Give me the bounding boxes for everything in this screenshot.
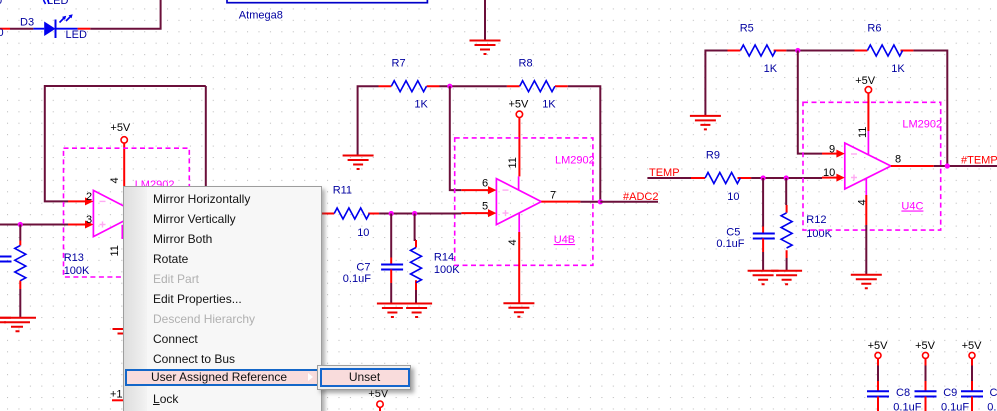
net label #ADC2 xyxy=(600,191,658,203)
wire xyxy=(971,366,973,382)
op-amp U4B xyxy=(496,155,594,247)
wire xyxy=(19,289,21,318)
wire xyxy=(913,51,947,167)
wire xyxy=(580,201,600,203)
capacitor C10 partial xyxy=(961,381,997,411)
svg-text:C5: C5 xyxy=(726,227,740,239)
wire xyxy=(10,28,33,30)
ground xyxy=(771,271,802,285)
svg-text:R7: R7 xyxy=(392,58,406,70)
svg-text:0.1uF: 0.1uF xyxy=(893,402,921,411)
svg-text:1K: 1K xyxy=(414,99,428,111)
pin 3 xyxy=(68,214,93,229)
svg-text:3: 3 xyxy=(86,214,92,226)
ground xyxy=(0,318,36,332)
wire xyxy=(358,86,379,155)
svg-text:U4B: U4B xyxy=(554,234,575,246)
power +5V U4B xyxy=(509,99,530,177)
svg-text:0.1uF: 0.1uF xyxy=(716,238,744,250)
wire xyxy=(379,213,461,215)
svg-text:5: 5 xyxy=(482,201,488,213)
svg-text:11: 11 xyxy=(507,157,519,168)
LED D3 xyxy=(20,14,90,41)
wire to pin 6 xyxy=(450,86,462,190)
svg-text:R9: R9 xyxy=(706,150,720,162)
ground xyxy=(401,304,432,318)
svg-text:0.1uF: 0.1uF xyxy=(343,273,371,285)
node junction xyxy=(945,163,950,168)
svg-text:1K: 1K xyxy=(764,63,778,75)
ground xyxy=(690,116,721,129)
svg-text:0.1uF: 0.1uF xyxy=(941,402,969,411)
svg-text:10: 10 xyxy=(357,227,369,239)
svg-text:4: 4 xyxy=(507,239,519,245)
node junction xyxy=(795,48,800,53)
wire feedback loop U4A xyxy=(45,86,206,214)
power +5V C10 xyxy=(962,340,983,366)
ground xyxy=(503,303,534,317)
power +12V partial xyxy=(110,389,137,401)
svg-text:TEMP: TEMP xyxy=(649,167,680,179)
node junction xyxy=(761,175,766,180)
svg-text:#TEMP: #TEMP xyxy=(961,155,997,167)
svg-text:U4C: U4C xyxy=(901,201,923,213)
svg-text:R8: R8 xyxy=(519,58,533,70)
ground xyxy=(470,41,501,55)
capacitor C8 xyxy=(867,381,922,411)
svg-text:LED: LED xyxy=(47,0,68,7)
svg-text:100K: 100K xyxy=(64,265,90,277)
svg-text:+5V: +5V xyxy=(962,340,983,352)
pin 10 xyxy=(822,167,845,182)
wire xyxy=(440,85,507,87)
svg-text:9: 9 xyxy=(829,144,835,156)
resistor R8 xyxy=(507,58,568,111)
power +5V U4C xyxy=(855,75,876,131)
wire to pin 9 xyxy=(798,51,822,154)
resistor R6 xyxy=(855,23,914,76)
svg-text:+5V: +5V xyxy=(915,340,936,352)
capacitor partial at left edge xyxy=(0,257,12,262)
context menu xyxy=(123,186,322,411)
node junction xyxy=(598,199,603,204)
svg-text:LM2902: LM2902 xyxy=(902,119,942,131)
node junction xyxy=(18,222,23,227)
resistor R14 xyxy=(411,214,461,304)
op-amp U4C xyxy=(845,119,942,213)
svg-text:0: 0 xyxy=(0,0,2,7)
pin 9 xyxy=(822,144,845,158)
svg-text:6: 6 xyxy=(482,178,488,190)
wire xyxy=(19,225,21,241)
svg-text:100K: 100K xyxy=(434,264,460,276)
svg-text:Atmega8: Atmega8 xyxy=(239,10,283,22)
svg-text:#ADC2: #ADC2 xyxy=(623,191,658,203)
pin 7 output xyxy=(541,190,580,202)
svg-text:+5V: +5V xyxy=(855,75,876,87)
svg-text:1K: 1K xyxy=(891,63,905,75)
selection box U4A (dashed) xyxy=(64,148,190,277)
svg-text:11: 11 xyxy=(857,127,869,138)
svg-text:R14: R14 xyxy=(434,252,454,264)
LED D2 partial top edge xyxy=(0,0,68,39)
svg-text:0.1uF: 0.1uF xyxy=(987,402,997,411)
resistor R13 xyxy=(15,241,90,290)
svg-text:10: 10 xyxy=(727,191,739,203)
selection box U4B (dashed) xyxy=(455,138,593,265)
node junction xyxy=(784,175,789,180)
svg-text:+5V: +5V xyxy=(368,388,389,400)
wire xyxy=(925,366,927,382)
svg-text:LM2902: LM2902 xyxy=(555,155,595,167)
submenu Unset xyxy=(317,365,412,390)
power +5V bottom xyxy=(368,388,389,411)
svg-text:C10: C10 xyxy=(990,387,997,399)
svg-text:11: 11 xyxy=(109,245,121,256)
svg-text:7: 7 xyxy=(550,190,556,202)
svg-text:+5V: +5V xyxy=(868,340,889,352)
node junction xyxy=(447,84,452,89)
power +5V C9 xyxy=(915,340,936,366)
svg-text:R13: R13 xyxy=(64,252,84,264)
svg-text:R5: R5 xyxy=(740,23,754,35)
capacitor C5 xyxy=(716,178,774,271)
wire xyxy=(877,366,879,382)
resistor R12 xyxy=(781,178,833,271)
svg-text:LED: LED xyxy=(66,29,87,41)
wire xyxy=(786,50,854,52)
ground xyxy=(748,271,779,285)
svg-text:C9: C9 xyxy=(943,387,957,399)
power +5V C8 xyxy=(868,340,889,366)
capacitor C9 xyxy=(915,381,970,411)
IC Atmega8 box xyxy=(227,0,427,22)
wire xyxy=(865,225,867,275)
op-amp U4A xyxy=(93,177,174,256)
wire pin3 net xyxy=(0,224,68,226)
wire U4B pin4 to ground xyxy=(518,232,520,303)
ground partial near menu xyxy=(113,329,144,343)
svg-text:+5V: +5V xyxy=(110,122,131,134)
svg-text:C7: C7 xyxy=(356,262,370,274)
svg-text:R11: R11 xyxy=(333,185,352,197)
pin 8 output xyxy=(891,154,934,167)
svg-text:2: 2 xyxy=(86,191,92,203)
ground xyxy=(343,156,374,170)
wire xyxy=(90,0,160,29)
resistor R7 xyxy=(379,58,440,111)
svg-text:1K: 1K xyxy=(542,99,556,111)
power +5V U4A xyxy=(110,122,131,190)
resistor R11 xyxy=(322,185,379,240)
pin 6 xyxy=(461,178,496,195)
svg-text:+5V: +5V xyxy=(509,99,530,111)
svg-text:0: 0 xyxy=(0,27,4,39)
pin 5 xyxy=(461,201,496,218)
resistor R5 xyxy=(728,23,787,76)
svg-text:C8: C8 xyxy=(896,387,910,399)
wire xyxy=(0,28,10,30)
svg-text:R6: R6 xyxy=(867,23,881,35)
selection box U4C (dashed) xyxy=(803,102,941,230)
resistor R9 xyxy=(691,150,751,204)
node junction xyxy=(389,211,394,216)
wire U4C pin4 to ground xyxy=(865,195,867,225)
node junction xyxy=(412,211,417,216)
wire xyxy=(934,165,997,167)
capacitor C7 xyxy=(343,214,403,304)
svg-text:D3: D3 xyxy=(20,17,34,29)
wire xyxy=(568,86,601,202)
pin 2 xyxy=(68,191,93,205)
svg-text:4: 4 xyxy=(109,177,121,183)
wire xyxy=(705,51,727,116)
ground xyxy=(851,275,882,289)
svg-text:8: 8 xyxy=(895,154,901,166)
wire xyxy=(751,177,822,179)
ground xyxy=(377,304,408,318)
wire xyxy=(484,0,486,41)
svg-text:R12: R12 xyxy=(806,214,826,226)
svg-text:10: 10 xyxy=(823,167,835,179)
ground partial at left edge xyxy=(0,318,11,323)
net label TEMP xyxy=(647,167,691,179)
